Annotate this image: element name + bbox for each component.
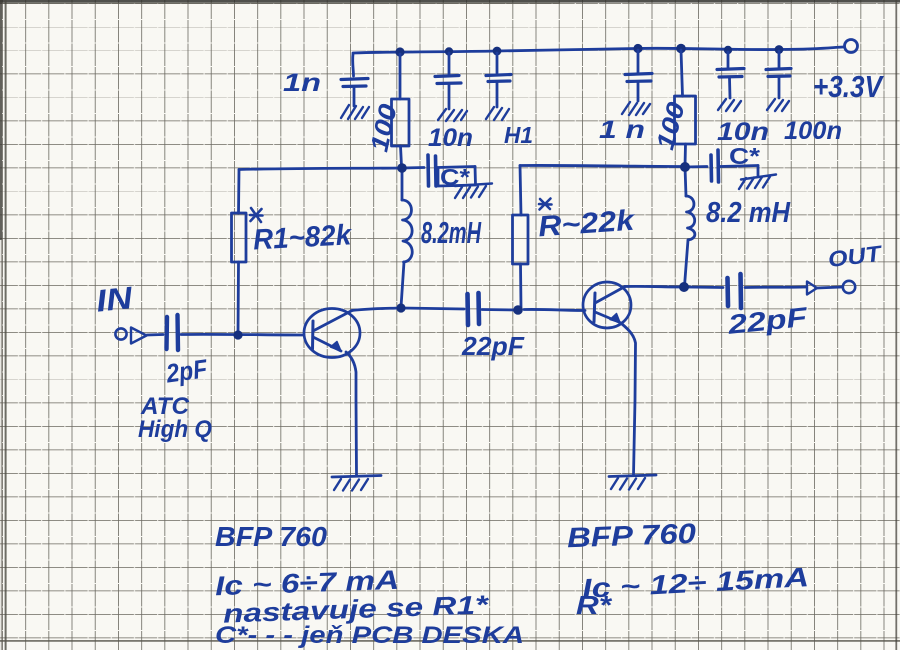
svg-text:C*- - - jeň PCB DESKA: C*- - - jeň PCB DESKA <box>215 622 524 649</box>
svg-text:C*: C* <box>440 164 470 190</box>
svg-text:1n: 1n <box>283 69 321 97</box>
svg-text:100n: 100n <box>784 117 842 145</box>
svg-text:H1: H1 <box>504 122 533 148</box>
svg-text:+3.3V: +3.3V <box>813 69 884 104</box>
svg-text:10n: 10n <box>717 118 769 146</box>
svg-text:10n: 10n <box>428 124 473 152</box>
svg-text:C*: C* <box>729 143 760 169</box>
svg-text:2pF: 2pF <box>163 353 210 389</box>
svg-text:IN: IN <box>94 280 134 319</box>
svg-text:8.2 mH: 8.2 mH <box>706 197 791 229</box>
svg-text:22pF: 22pF <box>461 331 525 361</box>
svg-text:R1~82k: R1~82k <box>252 219 353 256</box>
svg-text:R~22k: R~22k <box>537 205 637 244</box>
svg-text:R*: R* <box>576 590 613 620</box>
svg-text:High Q: High Q <box>138 416 212 443</box>
svg-text:8.2mH: 8.2mH <box>421 215 481 250</box>
svg-text:1 n: 1 n <box>599 116 645 144</box>
svg-text:BFP 760: BFP 760 <box>215 521 327 552</box>
svg-text:BFP 760: BFP 760 <box>566 518 696 554</box>
